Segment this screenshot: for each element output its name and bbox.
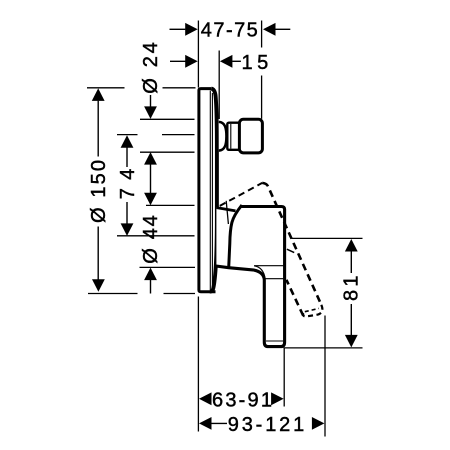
extension line: lever front x=284.2 <box>283 349 285 407</box>
mixer handle: fill <box>216 205 284 346</box>
dimension 63-91: right arrowhead <box>271 392 284 405</box>
extension line: plate bottom y=293.5 (left part) <box>88 293 138 295</box>
lever bottom inner line <box>266 340 283 342</box>
extension line: wall plane x=198.4 <box>197 21 199 88</box>
dashed lever: rounded end cap <box>303 305 322 317</box>
dashed lever: hidden pivot edge <box>226 201 228 224</box>
dimension 93-121: right arrowhead <box>312 417 325 430</box>
dimension 93-121: left arrowhead <box>199 417 212 430</box>
dimension 63-91: left arrowhead <box>199 392 212 405</box>
plate inner face line 2 <box>211 93 213 288</box>
dashed lever: step edge tick <box>287 249 294 252</box>
connector line between O24 and O44 arrows <box>150 164 152 193</box>
extension line: plate top y=87.8 (right part) <box>163 87 196 89</box>
mixer handle: neck top edge <box>217 208 236 211</box>
extension line: knob bottom y=152.2 <box>140 151 195 153</box>
svg-text:Ø 150: Ø 150 <box>88 160 110 223</box>
dimension O44: lower arrowhead (points up) <box>144 268 157 281</box>
dimension 15: right arrowhead <box>220 55 233 68</box>
dimension 74: bottom arrowhead (points down) <box>121 223 134 236</box>
dimension 81: top arrowhead (points up) <box>345 239 358 252</box>
dimension O150: top arrowhead (points up) <box>92 88 105 101</box>
dimension O24: lower arrowhead (points up) <box>144 152 157 165</box>
extension line: handle top y=205.4 <box>146 204 195 206</box>
dimension 15: left tail line <box>170 60 187 62</box>
dimension 15: left arrowhead <box>185 55 198 68</box>
dimension O150: bottom arrowhead (points down) <box>92 279 105 292</box>
lever top seam line <box>254 265 283 267</box>
extension line: handle axis y=235.8 <box>117 235 195 237</box>
extension line: plate front face x=219.2 <box>218 51 220 120</box>
dimension 15: right tail line <box>232 60 241 62</box>
dimension 81: lower dimension line <box>350 304 352 335</box>
dimension O150: upper dimension line <box>97 101 99 157</box>
dimension 81: top extension line <box>292 237 363 239</box>
dimension 47-75: left tail line <box>170 28 186 30</box>
dimension 93-121: left tail line <box>211 422 228 424</box>
extension line: knob front face x=261.6 (lower part) <box>261 76 263 119</box>
dimension O24: upper leader line <box>150 95 152 107</box>
dimension 47-75: right tail line <box>275 28 290 30</box>
extension line: handle bottom y=267.4 <box>140 266 196 268</box>
dimension 81: bottom extension line <box>284 347 363 349</box>
escutcheon plate body fill (side view) <box>199 89 217 292</box>
dimension 74: upper dimension line <box>126 148 128 168</box>
dimension 47-75: right arrowhead <box>263 23 276 36</box>
extension line: knob front face x=261.6 (upper part) <box>261 21 263 48</box>
extension line: plate bottom y=293.5 (right part) <box>164 293 196 295</box>
dimension 47-75: left arrowhead <box>185 23 198 36</box>
dimension 74: lower dimension line <box>126 202 128 224</box>
plate left/top/bottom outline <box>199 89 216 292</box>
extension line: knob axis y=134.6 (right part) <box>162 134 195 136</box>
extension line: knob top y=119.3 <box>140 118 195 120</box>
dashed lever: lower edge <box>286 280 303 316</box>
extension line: plate top y=87.8 (left part) <box>87 87 125 89</box>
dimension O24: upper arrowhead (points down) <box>144 106 157 119</box>
svg-text:63-91: 63-91 <box>212 389 272 411</box>
svg-text:Ø 44: Ø 44 <box>140 215 162 264</box>
stop-valve knob: ring highlight line <box>230 124 232 149</box>
dashed lever (open position): rotated body top edge <box>220 183 262 206</box>
extension line: wall plane bottom x=198.4 <box>197 297 199 432</box>
stop-valve knob: neck bump <box>219 122 227 151</box>
dimension 81: bottom arrowhead (points down) <box>345 335 358 348</box>
mixer handle: body left slant edge <box>229 205 242 268</box>
dimension O44: lower leader line <box>150 280 152 294</box>
dimension O150: lower dimension line <box>97 227 99 280</box>
extension line: knob axis y=134.6 (left part) <box>117 134 138 136</box>
dimension 74: top arrowhead (points up) <box>121 135 134 148</box>
extension line: open lever tip x=325 <box>324 316 326 437</box>
dimension O44: upper arrowhead (points down) <box>144 193 157 206</box>
mixer handle: outline top/right/bottom <box>215 207 285 347</box>
handle fillet inner line <box>254 266 265 279</box>
svg-text:47-75: 47-75 <box>201 19 258 41</box>
dashed lever: end cap inner line <box>305 308 319 311</box>
dashed lever: upper edge with corner <box>262 183 321 305</box>
svg-text:Ø 24: Ø 24 <box>140 42 162 94</box>
lever second seam line <box>265 278 284 280</box>
stop-valve knob: middle ring <box>227 123 240 150</box>
stop-valve knob: main body <box>239 119 262 153</box>
dimension 81: upper dimension line <box>350 251 352 273</box>
plate inner face line 1 <box>209 91 211 291</box>
plate right curved edge <box>210 89 217 292</box>
